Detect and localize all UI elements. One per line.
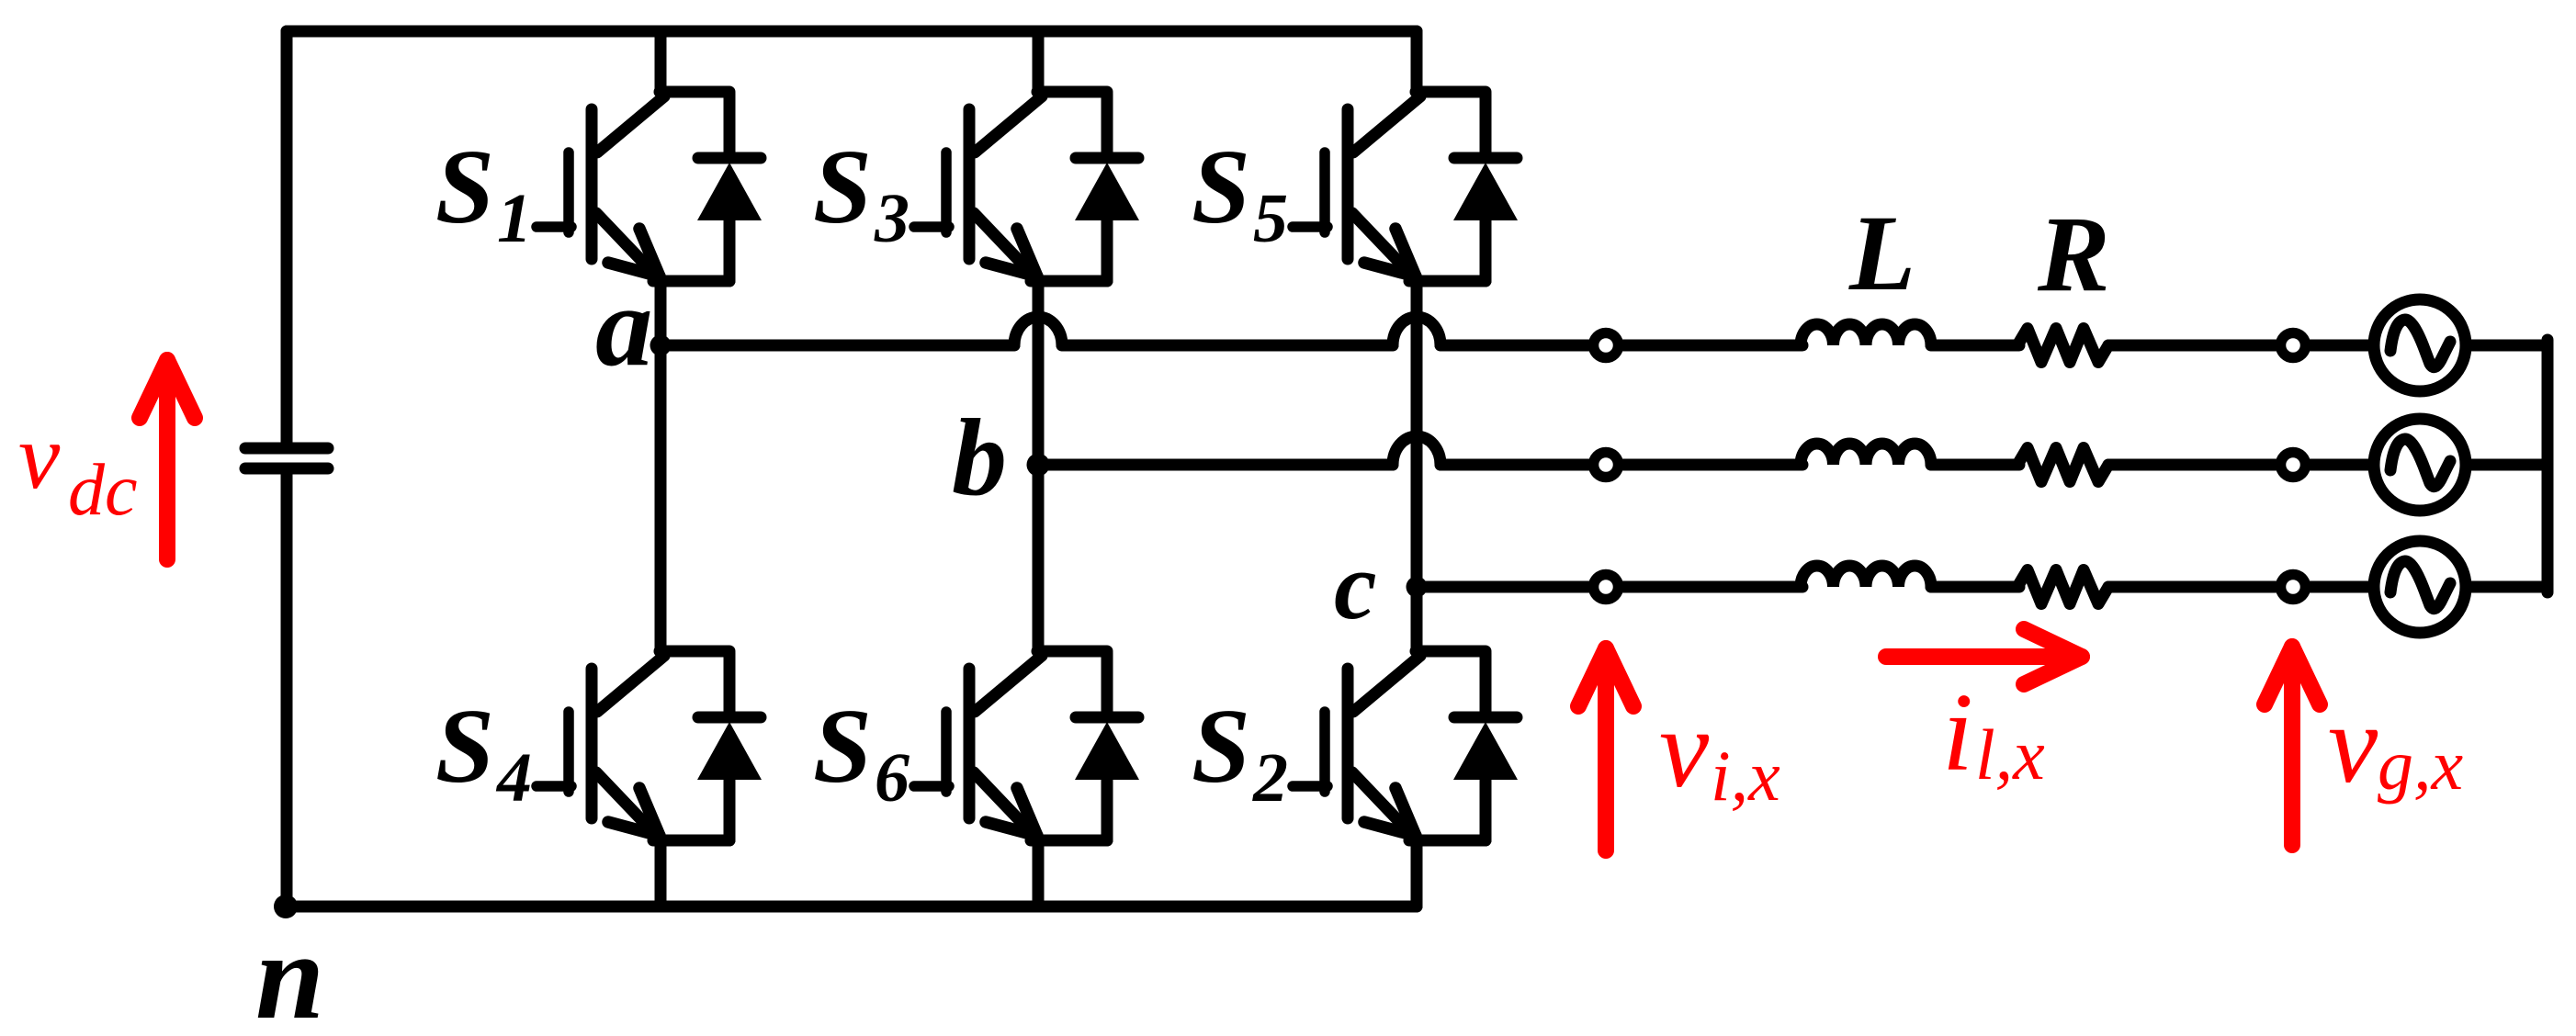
wire: S6 emitter to bottom bus (1033, 840, 1045, 906)
svg-text:5: 5 (1253, 180, 1288, 257)
svg-text:g,x: g,x (2378, 725, 2464, 805)
wire: leg from top bus to S5 (1411, 31, 1423, 92)
svg-text:n: n (255, 908, 324, 1036)
wire: leg from top bus to S3 (1033, 31, 1045, 92)
svg-text:i: i (1942, 670, 1973, 794)
svg-text:v: v (2328, 682, 2378, 806)
resistor R phase b (2017, 448, 2108, 482)
IGBT switch S2 with anti-parallel diode (1293, 651, 1518, 840)
wire: phase a segment 2 (1062, 340, 1393, 352)
IGBT switch S3 with anti-parallel diode (914, 92, 1139, 281)
wire: phase a terminal to inductor (1619, 340, 1802, 352)
wire: phase c segment (1417, 581, 1593, 593)
svg-text:v: v (18, 405, 61, 509)
red arrow v_i,x (1578, 648, 1633, 850)
svg-text:4: 4 (495, 739, 532, 816)
capacitor C_dc plate bottom (245, 463, 328, 475)
IGBT switch S6 with anti-parallel diode (914, 651, 1139, 840)
wire: phase c resistor to grid terminal (2108, 581, 2371, 593)
wire: phase a hop over leg b (1014, 317, 1062, 345)
wire: S4 emitter to bottom bus (655, 840, 667, 906)
wire: S2 emitter to bottom bus (1411, 840, 1423, 906)
terminal node phase c inverter side (1594, 575, 1619, 600)
wire: phase a inductor to resistor (1931, 340, 2019, 352)
wire: phase c source to neutral bus (2466, 581, 2548, 593)
red arrow i_l,x (1886, 629, 2082, 684)
svg-text:b: b (952, 396, 1007, 518)
wire: phase a segment 1 (661, 340, 1014, 352)
wire: left DC rail upper (281, 31, 293, 444)
red arrow v_g,x (2265, 647, 2320, 845)
wire: bottom DC bus (286, 901, 1417, 913)
wire: phase c terminal to inductor (1619, 581, 1802, 593)
node a junction dot (650, 335, 672, 356)
wire: phase c inductor to resistor (1931, 581, 2019, 593)
wire: phase b inductor to resistor (1931, 459, 2019, 471)
svg-text:S: S (813, 688, 872, 805)
inductor L phase c (1801, 566, 1931, 587)
node b junction dot (1027, 454, 1050, 477)
svg-text:S: S (1192, 129, 1250, 245)
wire: grid neutral bus (2542, 340, 2554, 592)
wire: phase b hop over leg c (1393, 436, 1441, 465)
svg-text:2: 2 (1252, 739, 1288, 816)
resistor R phase c (2017, 570, 2108, 604)
svg-text:v: v (1659, 687, 1710, 811)
svg-text:S: S (435, 129, 494, 245)
wire: top DC bus (287, 26, 1417, 38)
wire: phase a segment 3 (1441, 340, 1593, 352)
svg-text:S: S (813, 129, 872, 245)
wire: phase b segment 2 (1441, 459, 1593, 471)
svg-text:a: a (595, 264, 653, 390)
AC grid source phase c (2374, 541, 2466, 633)
wire: S5 emitter to phase node (1411, 281, 1423, 587)
terminal node phase a inverter side (1594, 333, 1619, 358)
wire: left DC rail lower (281, 474, 293, 906)
svg-text:dc: dc (68, 450, 138, 531)
node n junction dot (274, 895, 298, 918)
wire: phase b resistor to grid terminal (2108, 459, 2371, 471)
AC grid source phase b (2374, 419, 2466, 511)
wire: phase a resistor to grid terminal (2108, 340, 2371, 352)
IGBT switch S5 with anti-parallel diode (1293, 92, 1518, 281)
red arrow v_dc (140, 360, 195, 559)
wire: phase b source to neutral bus (2466, 459, 2548, 471)
terminal node phase b grid side (2281, 453, 2306, 478)
terminal node phase b inverter side (1594, 453, 1619, 478)
svg-text:R: R (2037, 194, 2110, 314)
svg-text:S: S (1192, 688, 1250, 805)
wire: phase node to S2 (1411, 587, 1423, 651)
IGBT switch S1 with anti-parallel diode (537, 92, 762, 281)
svg-text:3: 3 (874, 180, 910, 257)
wire: S1 emitter to phase node (655, 281, 667, 345)
node c junction dot (1407, 577, 1428, 598)
svg-text:i,x: i,x (1711, 736, 1780, 816)
svg-text:1: 1 (497, 180, 532, 257)
svg-text:c: c (1334, 532, 1377, 639)
wire: leg from top bus to S1 (655, 31, 667, 92)
terminal node phase a grid side (2281, 333, 2306, 358)
wire: phase a hop over leg c (1393, 317, 1441, 345)
resistor R phase a (2017, 329, 2108, 363)
wire: phase b terminal to inductor (1619, 459, 1802, 471)
terminal node phase c grid side (2281, 575, 2306, 600)
inductor L phase a (1801, 324, 1931, 345)
wire: phase node to S4 (655, 345, 667, 651)
IGBT switch S4 with anti-parallel diode (537, 651, 762, 840)
svg-text:S: S (435, 688, 494, 805)
svg-text:6: 6 (875, 739, 910, 816)
wire: phase b segment 1 (1038, 459, 1393, 471)
wire: S3 emitter to phase node (1033, 281, 1045, 465)
AC grid source phase a (2374, 299, 2466, 391)
svg-text:l,x: l,x (1975, 715, 2045, 794)
capacitor C_dc plate top (245, 443, 328, 455)
inductor L phase b (1801, 444, 1931, 465)
wire: phase a source to neutral bus (2466, 340, 2548, 352)
svg-text:L: L (1848, 193, 1915, 313)
wire: phase node to S6 (1033, 465, 1045, 651)
